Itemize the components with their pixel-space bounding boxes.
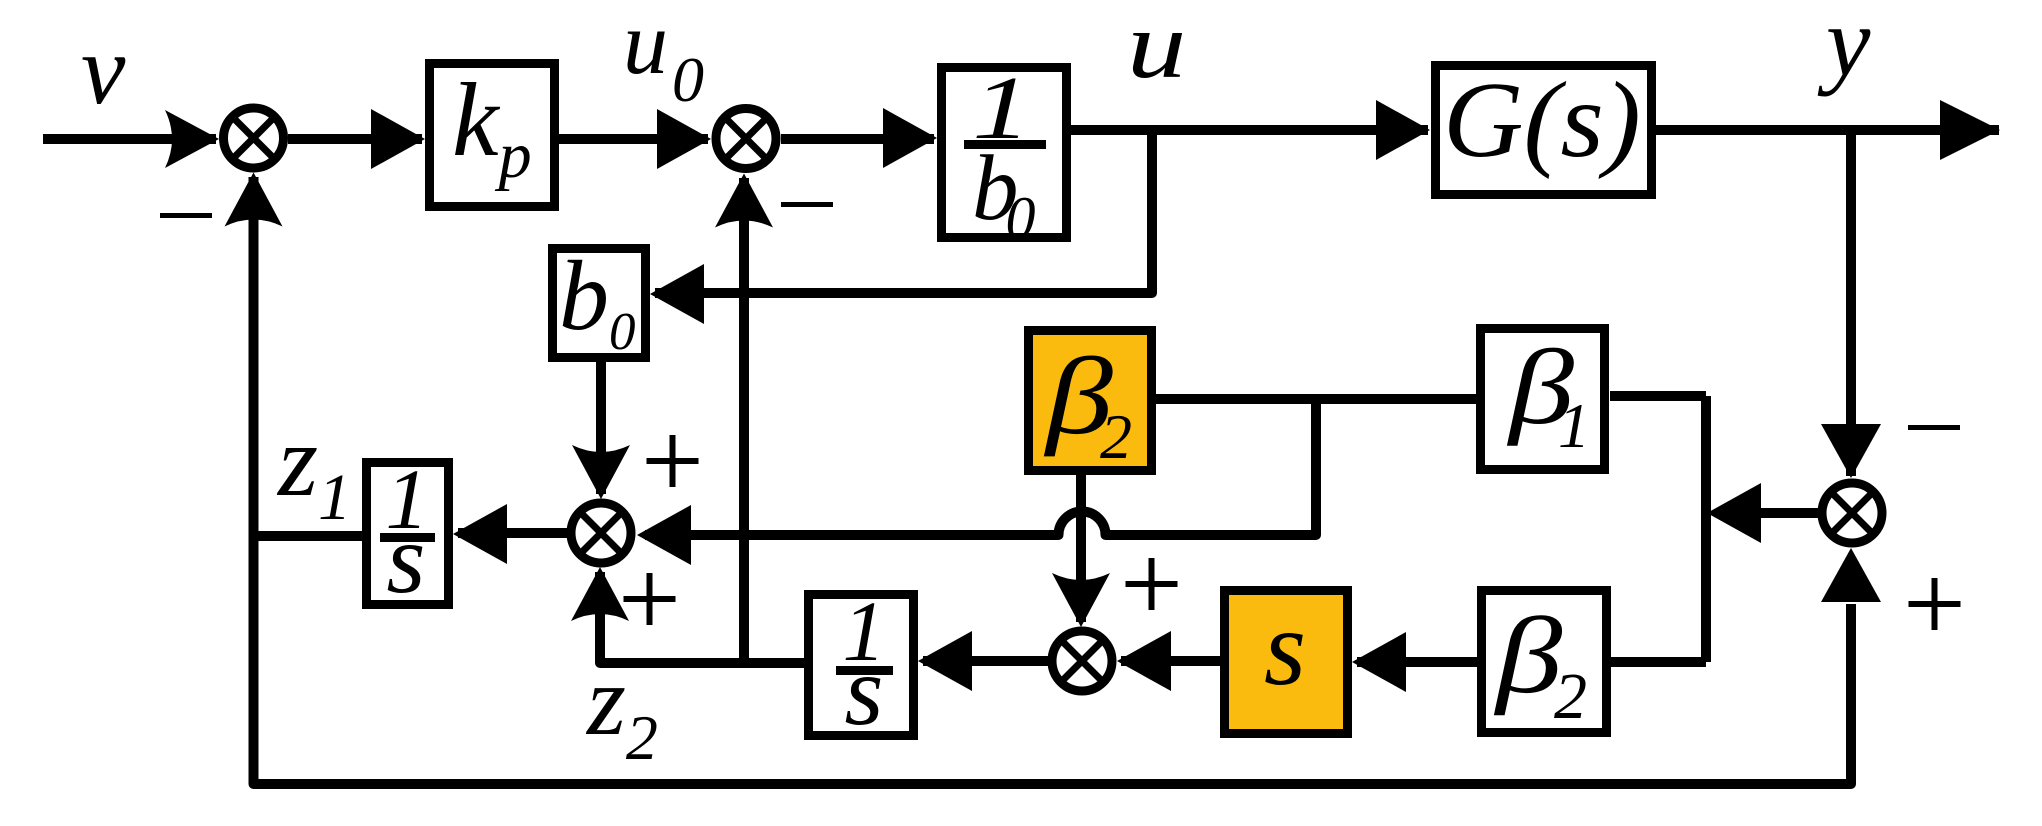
- svg-text:v: v: [81, 14, 126, 125]
- svg-text:2: 2: [1554, 660, 1587, 733]
- svg-text:y: y: [1817, 0, 1871, 97]
- svg-text:z1: z1: [276, 404, 351, 534]
- svg-text:1: 1: [1558, 390, 1590, 461]
- svg-text:s: s: [1264, 589, 1306, 708]
- svg-text:s: s: [387, 503, 426, 614]
- svg-text:u: u: [1127, 0, 1186, 98]
- svg-text:β: β: [1494, 596, 1563, 716]
- svg-text:G(s): G(s): [1443, 59, 1641, 179]
- svg-text:u0: u0: [623, 0, 704, 115]
- svg-text:2: 2: [1100, 401, 1132, 472]
- svg-text:s: s: [845, 635, 884, 746]
